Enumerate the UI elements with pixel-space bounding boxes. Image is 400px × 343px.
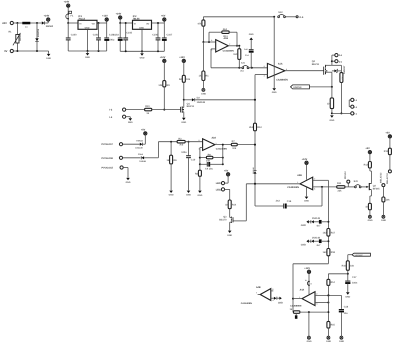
svg-text:24V: 24V <box>2 22 7 25</box>
svg-text:3n3: 3n3 <box>276 200 281 203</box>
svg-text:R12: R12 <box>364 164 369 167</box>
svg-text:78L12: 78L12 <box>78 18 85 21</box>
svg-text:GND: GND <box>85 56 90 59</box>
svg-text:C16: C16 <box>287 200 292 203</box>
svg-text:CA3240EN: CA3240EN <box>216 148 227 151</box>
svg-text:+24V: +24V <box>44 15 50 18</box>
svg-text:1: 1 <box>299 296 300 299</box>
svg-text:1N4148: 1N4148 <box>135 146 143 149</box>
svg-text:C107: C107 <box>167 33 173 36</box>
svg-text:100n: 100n <box>181 151 187 154</box>
svg-text:R14: R14 <box>232 203 237 206</box>
svg-text:1N4148: 1N4148 <box>312 236 321 239</box>
svg-text:78L06: 78L06 <box>133 18 140 21</box>
svg-text:GND: GND <box>301 224 306 227</box>
svg-text:100u: 100u <box>109 39 115 42</box>
svg-text:2k4: 2k4 <box>223 28 228 31</box>
svg-text:2: 2 <box>199 139 200 142</box>
svg-text:GND: GND <box>46 57 51 60</box>
svg-text:RELAY/12: RELAY/12 <box>386 173 389 184</box>
svg-text:THR4B: THR4B <box>139 160 146 163</box>
svg-text:GND: GND <box>181 121 186 124</box>
svg-text:6: 6 <box>314 187 315 190</box>
svg-text:+24V: +24V <box>64 1 70 4</box>
svg-text:GND: GND <box>186 194 191 197</box>
svg-text:+5V: +5V <box>365 147 370 150</box>
svg-text:PVO/LO07: PVO/LO07 <box>102 143 114 146</box>
svg-text:GND: GND <box>126 181 131 184</box>
svg-text:BF245: BF245 <box>373 187 381 190</box>
svg-text:1N5817: 1N5817 <box>343 65 346 74</box>
svg-text:7: 7 <box>229 43 230 46</box>
svg-text:CA3080EN: CA3080EN <box>290 304 301 307</box>
svg-text:C554: C554 <box>138 153 144 156</box>
svg-text:+12V: +12V <box>179 56 185 59</box>
svg-text:GND: GND <box>329 119 334 122</box>
svg-text:1: 1 <box>297 181 298 184</box>
svg-text:CA3240EN: CA3240EN <box>241 302 252 305</box>
svg-text:R15: R15 <box>331 324 336 327</box>
svg-text:GND: GND <box>345 296 350 299</box>
svg-text:10n: 10n <box>344 312 349 315</box>
svg-text:2: 2 <box>316 293 317 296</box>
svg-text:A1B: A1B <box>224 37 229 40</box>
svg-text:VO: VO <box>92 23 95 26</box>
svg-text:GND: GND <box>227 234 232 237</box>
svg-text:5: 5 <box>272 288 273 291</box>
svg-text:S07K11: S07K11 <box>19 32 22 41</box>
svg-text:1N4148: 1N4148 <box>312 217 321 220</box>
svg-text:1N4148: 1N4148 <box>252 168 255 175</box>
svg-text:GND: GND <box>304 200 309 203</box>
svg-text:BZW06: BZW06 <box>37 28 40 37</box>
svg-text:1: 1 <box>216 142 217 145</box>
svg-text:+12V: +12V <box>302 158 308 161</box>
svg-text:7k5: 7k5 <box>179 144 184 147</box>
svg-text:3: 3 <box>199 147 200 150</box>
svg-text:10k: 10k <box>232 147 237 150</box>
svg-text:A2A: A2A <box>212 136 217 139</box>
svg-text:CA3080EN: CA3080EN <box>276 78 288 81</box>
svg-text:+24V: +24V <box>116 13 122 16</box>
svg-text:+12V: +12V <box>304 267 310 270</box>
svg-text:0V: 0V <box>4 50 7 53</box>
svg-text:MELIO/12: MELIO/12 <box>380 172 383 183</box>
svg-text:7: 7 <box>314 178 315 181</box>
svg-text:PVO/LO0Z: PVO/LO0Z <box>102 167 114 170</box>
svg-text:+5V: +5V <box>141 129 146 132</box>
svg-text:GND: GND <box>278 302 283 305</box>
svg-text:1k0: 1k0 <box>233 53 238 56</box>
svg-text:C105: C105 <box>126 32 132 35</box>
svg-text:C17: C17 <box>352 276 357 279</box>
svg-text:R14: R14 <box>331 281 336 284</box>
svg-text:R13: R13 <box>384 150 389 153</box>
svg-text:1N4148: 1N4148 <box>197 101 206 104</box>
svg-text:2: 2 <box>264 65 265 68</box>
svg-text:C106: C106 <box>152 33 158 36</box>
svg-text:R18: R18 <box>331 251 336 254</box>
svg-text:7: 7 <box>256 292 257 295</box>
svg-text:GND: GND <box>368 219 373 222</box>
svg-text:SB560: SB560 <box>46 25 54 28</box>
svg-text:R11: R11 <box>337 182 342 185</box>
svg-text:GND: GND <box>197 194 202 197</box>
svg-text:R10: R10 <box>145 105 150 108</box>
svg-text:CA3240EN: CA3240EN <box>287 186 299 189</box>
svg-text:VSENSE: VSENSE <box>355 254 364 257</box>
svg-text:+5V: +5V <box>385 132 390 135</box>
svg-text:GND: GND <box>249 33 254 36</box>
svg-text:PD1/12: PD1/12 <box>344 171 347 179</box>
svg-text:VO: VO <box>146 23 149 26</box>
svg-text:A4B: A4B <box>256 286 261 289</box>
svg-text:3: 3 <box>264 74 265 77</box>
svg-text:C9 10u: C9 10u <box>205 168 213 171</box>
svg-text:+5V: +5V <box>224 169 229 172</box>
svg-text:10k: 10k <box>206 159 211 162</box>
svg-text:C101: C101 <box>93 33 99 36</box>
svg-text:2k2: 2k2 <box>249 126 254 129</box>
svg-text:C100: C100 <box>71 33 77 36</box>
svg-text:+12V: +12V <box>102 15 108 18</box>
svg-text:10k: 10k <box>158 84 163 87</box>
svg-text:6: 6 <box>286 68 287 71</box>
svg-text:A4A: A4A <box>300 289 305 292</box>
svg-text:PVO/LO08: PVO/LO08 <box>102 157 114 160</box>
svg-text:SJ2: SJ2 <box>278 11 283 14</box>
svg-text:A2B: A2B <box>297 174 302 177</box>
svg-text:GND: GND <box>381 219 386 222</box>
svg-text:GND: GND <box>85 27 90 30</box>
svg-text:VI: VI <box>134 23 136 26</box>
svg-text:GDRIVE: GDRIVE <box>293 86 302 89</box>
svg-text:GND: GND <box>201 92 206 95</box>
svg-text:R16: R16 <box>342 265 347 268</box>
svg-text:R12: R12 <box>257 126 262 129</box>
svg-text:10k: 10k <box>186 78 191 81</box>
svg-text:GND: GND <box>169 194 174 197</box>
svg-text:6: 6 <box>273 299 274 302</box>
svg-text:C10: C10 <box>191 158 196 161</box>
svg-text:BUZ11: BUZ11 <box>312 63 320 66</box>
svg-text:C103: C103 <box>113 33 119 36</box>
svg-text:R17: R17 <box>331 231 336 234</box>
svg-text:GND: GND <box>139 27 144 30</box>
svg-text:5: 5 <box>211 49 212 52</box>
svg-text:3: 3 <box>316 303 317 306</box>
svg-text:GND: GND <box>272 91 277 94</box>
svg-text:GND: GND <box>140 56 145 59</box>
svg-text:+6V: +6V <box>161 15 166 18</box>
svg-text:GND: GND <box>128 121 133 124</box>
svg-text:BUZ11: BUZ11 <box>187 105 195 108</box>
svg-text:SJ3: SJ3 <box>354 180 359 183</box>
svg-text:BS170: BS170 <box>219 218 227 221</box>
svg-text:+12V: +12V <box>160 56 166 59</box>
svg-text:A1A: A1A <box>278 63 283 66</box>
svg-text:47k: 47k <box>198 23 203 26</box>
svg-text:VI: VI <box>79 23 81 26</box>
svg-text:C18: C18 <box>344 306 349 309</box>
svg-text:100n: 100n <box>352 281 358 284</box>
svg-text:GND: GND <box>301 244 306 247</box>
svg-text:22k: 22k <box>338 189 343 192</box>
svg-text:6: 6 <box>211 39 212 42</box>
svg-text:THR4B: THR4B <box>136 139 143 142</box>
